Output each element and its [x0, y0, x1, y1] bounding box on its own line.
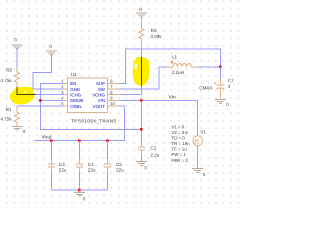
ground 0 (bottom rail) [78, 190, 80, 192]
svg-text:Vout: Vout [42, 134, 53, 140]
svg-text:PW = 1: PW = 1 [171, 152, 186, 157]
wire VIN rail [120, 99, 198, 101]
svg-text:3.09k: 3.09k [150, 34, 162, 39]
svg-text:SUP: SUP [96, 81, 105, 86]
junction dot MODE/EN [39, 99, 42, 102]
wire GND net from top ground [33, 55, 63, 89]
junction dot VIN/C1 [140, 99, 143, 102]
svg-text:22u: 22u [88, 167, 96, 172]
svg-text:VIN: VIN [98, 98, 105, 103]
wire bottom rail [51, 189, 107, 191]
ground 0 (below C1) [136, 161, 147, 165]
resistor R2 [14, 68, 19, 88]
svg-text:0: 0 [144, 166, 147, 171]
svg-text:9: 9 [110, 96, 113, 101]
svg-text:MODE: MODE [70, 98, 83, 103]
svg-text:CMAX: CMAX [199, 85, 212, 90]
svg-text:Vin: Vin [169, 95, 176, 101]
svg-text:0: 0 [49, 44, 52, 49]
svg-text:8: 8 [110, 90, 113, 95]
svg-text:R2: R2 [6, 68, 12, 73]
resistor R3 [139, 18, 144, 49]
svg-text:R1: R1 [6, 107, 12, 112]
wire ICHG net [16, 94, 36, 96]
svg-text:PER = 2: PER = 2 [171, 158, 188, 163]
ground 0 (top, above GND pin net) [46, 51, 57, 55]
ground 0 (below C7) [215, 100, 226, 104]
wire V1 top [197, 100, 199, 135]
pin stubs left [63, 83, 67, 106]
wire gnd to R2 [16, 49, 18, 68]
svg-text:3: 3 [61, 90, 64, 95]
svg-text:EN: EN [70, 81, 76, 86]
wire VIN down to C1 [140, 100, 142, 146]
wire MODE net [40, 99, 63, 101]
svg-text:2: 2 [61, 84, 64, 89]
svg-text:V2 = 3.6: V2 = 3.6 [171, 130, 188, 135]
svg-text:5: 5 [61, 101, 64, 106]
wire VCHG net [120, 94, 142, 96]
svg-text:2.2u: 2.2u [150, 153, 159, 158]
svg-text:OSEL: OSEL [70, 104, 82, 109]
svg-text:4.75k: 4.75k [0, 117, 12, 122]
svg-text:VOUT: VOUT [93, 104, 106, 109]
svg-text:6: 6 [110, 78, 113, 83]
wire L1 to junction [198, 66, 221, 68]
svg-text:R3: R3 [151, 28, 157, 33]
svg-text:GND: GND [70, 87, 80, 92]
junction dot C1/EN branch [140, 128, 143, 131]
svg-text:C7: C7 [228, 78, 234, 83]
capacitor C5 [107, 141, 109, 160]
ground 0 (top-left, above R2) [11, 45, 22, 49]
IC U1 TPS61094_TRANS [67, 78, 107, 113]
svg-text:TF = 1u: TF = 1u [171, 147, 187, 152]
wire SW net [120, 67, 167, 89]
wire VOUT net [34, 106, 124, 141]
svg-text:V1 = 0: V1 = 0 [171, 124, 184, 129]
svg-text:4: 4 [61, 96, 64, 101]
V1 parameter text [171, 124, 190, 163]
capacitor C7 CMAX [219, 67, 221, 79]
wire EN net [40, 83, 141, 129]
voltage source V1 [193, 136, 203, 146]
svg-text:7: 7 [110, 84, 113, 89]
capacitor C3 [50, 141, 52, 160]
svg-text:4.75k: 4.75k [0, 78, 12, 83]
wire R3 bottom through highlight to VCHG [140, 49, 142, 57]
svg-text:0: 0 [23, 129, 26, 134]
junction dot SUP/L1/C7 [219, 65, 222, 68]
wire V1 bottom [197, 146, 199, 169]
yellow highlight blob right [133, 57, 150, 86]
svg-text:SW: SW [98, 87, 106, 92]
svg-text:V1: V1 [200, 129, 206, 134]
svg-text:0: 0 [83, 197, 86, 202]
wire SUP net [120, 49, 221, 84]
svg-text:VCHG: VCHG [92, 93, 105, 98]
ground 0 (below R1) [11, 126, 22, 130]
svg-text:0: 0 [139, 7, 142, 12]
wire OSEL net to R1 [17, 105, 63, 107]
junction dot bottom rail [78, 189, 81, 192]
capacitor C1 [138, 142, 145, 155]
svg-text:U1: U1 [71, 72, 77, 77]
inductor L1 [167, 64, 198, 67]
svg-text:TR = 10n: TR = 10n [171, 141, 190, 146]
svg-text:10: 10 [110, 101, 115, 106]
junction dots Vout rail [50, 139, 53, 142]
svg-text:1: 1 [61, 78, 64, 83]
svg-text:ICHG: ICHG [70, 93, 82, 98]
svg-text:L1: L1 [172, 55, 178, 60]
wire C1 to ground [140, 155, 142, 161]
wire R2 bottom through highlight [16, 87, 18, 95]
svg-text:0: 0 [226, 102, 229, 107]
yellow highlight blob left [10, 87, 34, 105]
svg-text:0: 0 [203, 172, 206, 177]
svg-text:0: 0 [14, 37, 17, 42]
svg-text:3: 3 [228, 84, 231, 89]
ground 0 (below V1) [192, 168, 203, 172]
svg-text:C1: C1 [150, 145, 156, 150]
resistor R1 [14, 106, 19, 126]
svg-text:2.2uH: 2.2uH [172, 70, 184, 75]
svg-text:22u: 22u [59, 167, 67, 172]
svg-text:TD = 0: TD = 0 [171, 136, 185, 141]
capacitor C4 [78, 141, 80, 160]
svg-text:TPS61094_TRANS: TPS61094_TRANS [71, 119, 116, 124]
ground 0 (top-right, above R3) [136, 13, 147, 17]
pin stubs right [107, 83, 119, 106]
svg-text:22u: 22u [116, 167, 124, 172]
